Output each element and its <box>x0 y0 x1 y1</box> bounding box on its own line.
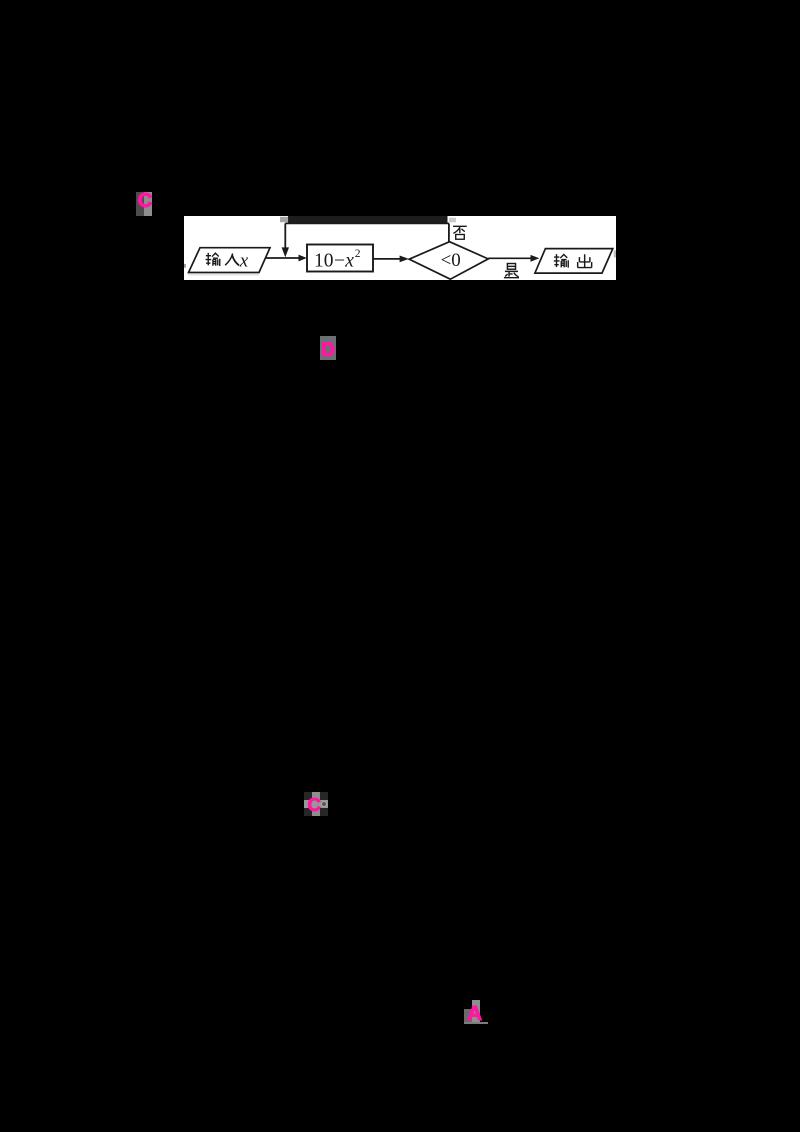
svg-text:<0: <0 <box>441 250 461 271</box>
answer mark C (top left) <box>136 192 153 217</box>
svg-text:−: − <box>334 250 345 271</box>
glyph 输 (output) <box>554 254 568 267</box>
glyph 入 (input) <box>225 253 239 265</box>
svg-text:10: 10 <box>314 250 334 271</box>
glyph 是 (yes) <box>504 263 519 277</box>
gray square right end of band <box>449 217 456 222</box>
svg-text:2: 2 <box>355 248 361 260</box>
gray tick right edge <box>614 250 616 257</box>
thick dark band (covered feedback line) <box>288 216 448 223</box>
answer mark C (middle) <box>304 792 328 816</box>
wire: diamond to output <box>488 257 531 259</box>
wire: feedback horizontal line <box>285 222 449 224</box>
white flowchart panel <box>184 216 616 280</box>
wire: parallelogram to rect <box>263 257 299 259</box>
parallelogram output (输出) <box>535 248 613 273</box>
gray square left end of band <box>280 216 288 221</box>
answer mark D <box>320 336 336 360</box>
glyph 出 (output) <box>578 254 592 267</box>
arrowhead into output <box>531 254 540 261</box>
arrowhead into diamond <box>400 255 409 262</box>
process rect <box>307 244 373 271</box>
svg-text:x: x <box>344 250 354 271</box>
faint shadow under parallelogram <box>188 273 259 275</box>
wire: rect to diamond <box>373 257 400 259</box>
wire: feedback left vertical <box>284 223 286 248</box>
gray tick left edge <box>184 263 186 267</box>
svg-text:x: x <box>239 250 249 271</box>
decision diamond <box>409 241 488 279</box>
wire: feedback right vertical to diamond top <box>448 223 450 241</box>
glyph 输 (input) <box>206 252 220 265</box>
parallelogram input (输入x) <box>189 247 271 272</box>
glyph 否 (no) <box>453 226 467 239</box>
answer mark A <box>472 1000 480 1024</box>
arrowhead into rect <box>299 254 307 261</box>
arrowhead down onto input wire <box>282 247 289 257</box>
